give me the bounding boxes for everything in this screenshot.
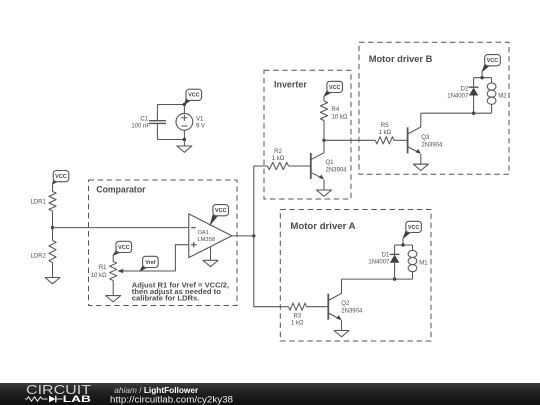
svg-text:LDR2: LDR2: [30, 253, 46, 259]
wire Q1 collector: [323, 140, 325, 152]
node bottom power junction: [183, 138, 186, 141]
dashed box Comparator: [89, 180, 238, 306]
wire Q3 collector: [420, 113, 422, 127]
CircuitLab logo resistor-diode glyph: [25, 397, 48, 401]
svg-text:calibrate for LDRs.: calibrate for LDRs.: [132, 293, 200, 302]
svg-text:VCC: VCC: [329, 85, 340, 91]
diode D1 1N4007: [390, 245, 400, 279]
wire top power rail: [157, 104, 184, 106]
ground (op-amp): [203, 260, 218, 266]
node bottom rail B: [472, 112, 475, 115]
wire snubber bottom rail B: [474, 112, 492, 114]
svg-text:LAB: LAB: [63, 394, 92, 404]
svg-text:VCC: VCC: [215, 208, 226, 214]
svg-text:OA1: OA1: [198, 230, 209, 236]
svg-text:M2: M2: [498, 93, 507, 99]
wire R4 top lead: [323, 96, 325, 101]
svg-text:2N3904: 2N3904: [326, 168, 348, 174]
op-amp plus sign: [191, 242, 196, 247]
ground (R1): [106, 296, 121, 302]
svg-text:R4: R4: [332, 107, 340, 113]
potentiometer R1 wiper arrow: [117, 269, 130, 273]
voltage source V1: [176, 105, 193, 140]
svg-text:1N4007: 1N4007: [447, 93, 469, 99]
svg-text:Q1: Q1: [326, 160, 335, 166]
photoresistor LDR2: [49, 228, 56, 263]
svg-text:R5: R5: [381, 123, 389, 129]
net flag VCC (driver B): [482, 55, 500, 72]
wire divider to op-amp inverting input: [53, 227, 189, 229]
svg-text:VCC: VCC: [118, 245, 129, 251]
wire snubber top rail B: [474, 77, 492, 79]
node LDR divider: [51, 226, 54, 229]
net flag VCC (power): [184, 89, 201, 104]
svg-text:Inverter: Inverter: [274, 80, 307, 91]
net flag VCC (op-amp): [210, 205, 228, 225]
wire op-amp output: [232, 235, 254, 237]
resistor R4: [320, 101, 327, 121]
svg-text:C1: C1: [140, 117, 148, 123]
transistor Q3: [408, 127, 421, 164]
resistor R2: [268, 162, 289, 169]
dashed box Motor driver B: [359, 42, 509, 174]
svg-text:1N4007: 1N4007: [368, 259, 390, 265]
motor M1: [408, 245, 417, 279]
resistor R3: [289, 303, 307, 310]
svg-text:10 kΩ: 10 kΩ: [332, 115, 348, 121]
wire R1 bottom lead: [112, 281, 114, 296]
dashed box Motor driver A: [280, 210, 431, 342]
node output junction: [252, 234, 255, 237]
wire output dropper to motor driver A: [254, 236, 289, 307]
wire R1 top lead: [112, 255, 114, 261]
capacitor C1: [149, 105, 166, 140]
wire collector node to R5: [324, 139, 375, 141]
wire LDR1 top lead: [52, 184, 54, 192]
svg-text:http://circuitlab.com/cy2ky38: http://circuitlab.com/cy2ky38: [110, 394, 233, 405]
svg-text:Motor driver A: Motor driver A: [290, 221, 355, 232]
svg-text:Q2: Q2: [341, 301, 350, 307]
potentiometer R1 block: [91, 241, 132, 302]
wire snubber top rail A: [395, 244, 413, 246]
wire op-amp ground stub: [210, 247, 212, 261]
node top power junction: [183, 103, 186, 106]
transistor Q2: [328, 293, 341, 330]
svg-text:D2: D2: [461, 86, 469, 92]
transistor Q1: [311, 153, 324, 190]
op-amp triangle body: [189, 214, 232, 258]
svg-text:1 kΩ: 1 kΩ: [291, 320, 304, 326]
potentiometer R1 body: [110, 262, 117, 281]
svg-text:LM358: LM358: [198, 237, 215, 243]
svg-text:R2: R2: [274, 149, 282, 155]
ground (Q3): [413, 164, 428, 170]
wire Q2 collector: [341, 279, 343, 293]
ground (LDR divider): [45, 278, 60, 284]
svg-text:VCC: VCC: [55, 174, 66, 180]
wire R3 to Q2 base: [307, 306, 329, 308]
node bottom rail A: [393, 277, 396, 280]
svg-text:LDR1: LDR1: [30, 199, 46, 205]
voltage source V1 and capacitor C1 power block: [131, 89, 205, 152]
svg-text:V1: V1: [196, 117, 204, 123]
wire ground stub V1: [183, 140, 185, 147]
wire R4 to collector node: [323, 121, 325, 141]
svg-text:10 kΩ: 10 kΩ: [91, 273, 107, 279]
svg-text:VCC: VCC: [487, 58, 498, 64]
footer bar: [0, 383, 540, 405]
ground (Q2): [334, 331, 349, 337]
wire VCC stub (driver B): [481, 72, 483, 78]
LDR divider column: [30, 171, 188, 284]
svg-text:1 kΩ: 1 kΩ: [272, 156, 285, 162]
net flag VCC (inverter): [324, 81, 343, 96]
wire collector to snubber rail: [421, 112, 474, 114]
diode D2 1N4007: [469, 78, 479, 114]
op-amp OA1: [189, 205, 232, 267]
motor M2: [487, 78, 496, 114]
wire LDR1 to node: [52, 211, 54, 228]
net flag VCC (LDR): [53, 171, 69, 185]
svg-text:D1: D1: [382, 253, 390, 259]
wire bottom power rail: [157, 139, 184, 141]
ground (power block): [177, 146, 192, 152]
wire snubber bottom rail A: [395, 278, 413, 280]
node top rail A: [401, 243, 404, 246]
svg-text:M1: M1: [419, 261, 428, 267]
svg-text:VCC: VCC: [188, 93, 199, 99]
node top rail B: [480, 76, 483, 79]
svg-text:Q3: Q3: [421, 135, 430, 141]
svg-text:Vref: Vref: [145, 260, 155, 266]
net flag VCC (driver A): [403, 221, 421, 238]
wire output riser to inverter: [254, 166, 268, 236]
photoresistor LDR1: [49, 192, 56, 212]
svg-text:Motor driver B: Motor driver B: [369, 54, 433, 65]
svg-text:R3: R3: [293, 314, 301, 320]
resistor R5: [375, 137, 394, 144]
wire collector to snubber rail A: [342, 278, 395, 280]
svg-text:100 nF: 100 nF: [131, 123, 150, 129]
net flag VCC (R1): [113, 241, 131, 255]
wire LDR2 to ground: [52, 263, 54, 278]
wire R2 to Q1 base: [289, 165, 311, 167]
wire VCC stub (driver A): [402, 239, 404, 246]
svg-text:R1: R1: [99, 265, 107, 271]
svg-text:9 V: 9 V: [196, 123, 205, 129]
svg-text:2N3904: 2N3904: [341, 308, 363, 314]
op-amp minus sign: [191, 227, 195, 229]
net flag Vref: [140, 256, 158, 271]
svg-text:2N3904: 2N3904: [421, 142, 443, 148]
dashed box Inverter: [264, 70, 351, 199]
svg-text:VCC: VCC: [408, 225, 419, 231]
svg-text:1 kΩ: 1 kΩ: [378, 130, 391, 136]
ground (Q1): [317, 190, 332, 196]
wire R5 to Q3 base: [394, 139, 408, 141]
wire wiper to plus input: [126, 245, 189, 271]
svg-text:Comparator: Comparator: [96, 185, 145, 196]
node Q1 collector junction: [322, 139, 325, 142]
